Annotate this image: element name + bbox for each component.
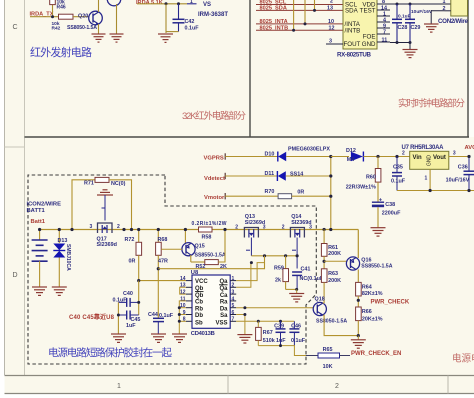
svg-text:8025_SDA: 8025_SDA xyxy=(260,6,287,12)
wire 8025_INTA xyxy=(256,23,343,25)
resistor R72 xyxy=(125,230,142,282)
svg-text:FOE: FOE xyxy=(363,33,376,40)
mosfet Q13 SI2369d xyxy=(244,214,265,238)
capacitor C39 xyxy=(274,321,286,345)
wire Q20 collector up xyxy=(98,0,100,12)
pin 12 INTB xyxy=(329,25,335,31)
svg-text:/INTB: /INTB xyxy=(345,28,361,35)
junction pin7/R67 xyxy=(257,320,260,323)
svg-text:SS8050-1.5A: SS8050-1.5A xyxy=(316,319,347,325)
pin 2 label Q13 xyxy=(235,225,238,231)
label PWR_CHECK xyxy=(371,299,410,305)
svg-text:8: 8 xyxy=(183,317,186,323)
diode D12 M4 xyxy=(346,148,363,163)
svg-text:C: C xyxy=(12,24,17,31)
svg-text:2: 2 xyxy=(335,383,339,390)
svg-text:Qa: Qa xyxy=(219,279,228,285)
inverted ground above Q17 gate xyxy=(97,190,113,195)
svg-text:R66: R66 xyxy=(362,309,372,315)
ground R66 xyxy=(351,336,366,349)
ground under battery xyxy=(32,287,47,295)
label IRDA_TX xyxy=(30,12,54,18)
svg-text:0.2R/±1%/2W: 0.2R/±1%/2W xyxy=(192,221,227,227)
svg-text:Cb: Cb xyxy=(195,300,203,306)
svg-text:C36: C36 xyxy=(458,164,468,170)
wire Q13 gate down xyxy=(250,238,252,256)
wire U7 ground rail xyxy=(397,190,474,192)
wire U8 pin1 to gate node xyxy=(236,256,264,281)
svg-text:CD4013B: CD4013B xyxy=(191,331,215,337)
svg-text:C44: C44 xyxy=(148,312,158,318)
wire Q19 emitter to ground xyxy=(116,4,118,34)
label Batt1 net xyxy=(31,219,46,225)
svg-text:电源电路短路保护胶封在一起: 电源电路短路保护胶封在一起 xyxy=(48,346,173,359)
diode D13 SMBJ10CA (TVS) xyxy=(53,230,71,288)
junction battery on bus xyxy=(38,228,41,231)
resistor R70 xyxy=(265,189,305,199)
label 8025_INTA xyxy=(260,19,288,25)
junction U7 pin1/rail xyxy=(429,189,432,192)
port VGPRS xyxy=(204,153,226,161)
svg-text:Db: Db xyxy=(195,313,203,319)
svg-text:BATT1: BATT1 xyxy=(27,208,46,214)
pin 3 label Q17 xyxy=(90,224,93,230)
wire bottoms rail to R65 xyxy=(258,346,306,356)
svg-text:R58: R58 xyxy=(202,235,212,241)
transistor Q15 SS8550 xyxy=(182,230,226,263)
resistor R42 xyxy=(52,14,74,31)
svg-text:U7 RH5RL30AA: U7 RH5RL30AA xyxy=(402,145,445,151)
svg-text:VCC: VCC xyxy=(195,279,208,285)
port Vmotor xyxy=(204,193,225,201)
transistor Q18 SS8050 xyxy=(313,297,347,325)
svg-text:Batt1: Batt1 xyxy=(31,219,46,225)
wire R68 node down to C44 xyxy=(157,269,159,318)
junction SDA xyxy=(313,9,316,12)
svg-text:C38: C38 xyxy=(385,202,395,208)
svg-text:GND: GND xyxy=(362,41,376,48)
ground under C29 xyxy=(403,43,418,58)
capacitor C28 xyxy=(392,4,411,43)
junction pin5 wire xyxy=(243,306,246,309)
svg-text:1uF: 1uF xyxy=(276,338,286,344)
junction C29 bottom xyxy=(409,41,412,44)
svg-text:IRM-3638T: IRM-3638T xyxy=(198,12,228,18)
svg-text:VSS: VSS xyxy=(215,320,227,326)
svg-text:R63: R63 xyxy=(328,271,338,277)
junction D13 on bus xyxy=(58,228,61,231)
svg-text:Rb: Rb xyxy=(195,306,203,312)
svg-text:C42: C42 xyxy=(185,19,195,25)
pin 7 FOE stub xyxy=(377,29,390,35)
resistor R61 xyxy=(321,230,341,269)
capacitor C41 xyxy=(292,266,325,289)
junction C28 bottom xyxy=(396,41,399,44)
svg-text:M4: M4 xyxy=(347,157,355,163)
wire 8025_INTB xyxy=(256,29,343,31)
svg-text:20K±1%: 20K±1% xyxy=(362,316,383,322)
svg-text:12: 12 xyxy=(329,25,335,31)
svg-text:Q18: Q18 xyxy=(315,297,325,303)
capacitor C44 xyxy=(148,312,174,334)
junction C29 top xyxy=(409,3,412,6)
junction Q15 emitter on bus xyxy=(184,228,187,231)
junction R68 on bus xyxy=(157,228,160,231)
wire Q18 emitter down xyxy=(323,315,358,335)
resistor R65 xyxy=(306,347,350,370)
junction rail/R70 xyxy=(329,195,332,198)
label BATT1 xyxy=(27,208,46,214)
capacitor C46 xyxy=(289,321,305,345)
stub pin8 xyxy=(179,320,186,322)
svg-text:Q20: Q20 xyxy=(78,14,88,20)
junction at x166 xyxy=(165,2,168,5)
capacitor C29 xyxy=(405,4,433,43)
pin 8 VDD stub xyxy=(377,0,390,5)
svg-text:2: 2 xyxy=(117,224,120,230)
ground CON2 xyxy=(424,24,439,32)
svg-text:SMBJ10CA: SMBJ10CA xyxy=(65,244,71,271)
svg-text:14: 14 xyxy=(180,276,186,282)
svg-text:Sa: Sa xyxy=(220,313,228,319)
pin 11 GND stub xyxy=(377,37,390,43)
label power-protection note (Chinese blue) xyxy=(48,346,173,359)
connector CON2/Wire body xyxy=(438,0,469,25)
svg-text:Qb: Qb xyxy=(195,293,204,299)
svg-text:实时时钟电路部分: 实时时钟电路部分 xyxy=(398,98,465,110)
label RTC circuit part (Chinese red) xyxy=(398,98,465,110)
wire U8 pin6 to ground xyxy=(236,315,245,335)
svg-text:0.1uF: 0.1uF xyxy=(291,338,306,344)
svg-text:2: 2 xyxy=(330,0,333,5)
junction rail/C39 xyxy=(279,344,282,347)
svg-text:RX-8025TUB: RX-8025TUB xyxy=(337,52,372,59)
CON2 pin 2 xyxy=(443,6,451,12)
svg-text:C41: C41 xyxy=(301,266,311,272)
junction C36 top xyxy=(467,155,470,158)
junction C40 right xyxy=(137,301,140,304)
junction R52 on bus xyxy=(223,228,226,231)
junction pin2/gate wire xyxy=(250,261,253,264)
wire 8025_SDA xyxy=(256,9,343,11)
IRM-3638T pin 1 xyxy=(187,0,197,5)
tick Q13 gate xyxy=(246,249,250,251)
wire U8 pin2 up xyxy=(236,263,251,288)
junction C36/rail xyxy=(467,189,470,192)
dashed protection box xyxy=(28,175,316,364)
svg-text:3: 3 xyxy=(90,224,93,230)
ground under Q19 xyxy=(110,34,124,42)
label AVCC xyxy=(465,145,474,151)
wire VGPRS rail xyxy=(225,156,278,158)
wire R68 node to gate node xyxy=(158,256,264,269)
resistor R52 xyxy=(191,230,227,271)
svg-text:8025_INTB: 8025_INTB xyxy=(260,25,289,31)
junction R61/R63 base node xyxy=(323,260,326,263)
svg-text:3: 3 xyxy=(453,151,456,157)
junction INTA xyxy=(304,22,307,25)
junction pin6 wire xyxy=(243,313,246,316)
junction gate/C41 xyxy=(296,254,299,257)
svg-text:SS14: SS14 xyxy=(290,172,303,178)
svg-text:1: 1 xyxy=(232,276,235,282)
svg-text:32K红外电路部分: 32K红外电路部分 xyxy=(182,110,246,122)
wire IRDA_TX net xyxy=(30,16,59,18)
pin 1 stub xyxy=(377,11,390,17)
ground under U8 left pins xyxy=(172,334,187,342)
pin 13 SDA xyxy=(327,6,333,12)
wire R42 to Q20 base xyxy=(73,16,89,18)
junction pin7/C39 xyxy=(279,320,282,323)
svg-text:D10: D10 xyxy=(265,152,275,158)
junction PWR_CHECK xyxy=(357,299,360,302)
svg-text:0.1uF: 0.1uF xyxy=(159,313,174,319)
junction rail/D11 xyxy=(329,174,332,177)
svg-text:+: + xyxy=(379,197,383,203)
junction R72 on bus xyxy=(137,228,140,231)
pin 14 TEST stub xyxy=(377,5,390,11)
label IRDA 5.1K (cut at top) xyxy=(136,0,163,6)
diode D10 PMEG6030ELPX xyxy=(265,147,331,162)
junction R71 left on bus xyxy=(70,228,73,231)
svg-text:1: 1 xyxy=(190,0,193,5)
svg-text:1: 1 xyxy=(117,383,121,390)
svg-text:Sb: Sb xyxy=(195,320,203,326)
svg-text:10K: 10K xyxy=(323,364,333,370)
wire U8 pin5 to Q18 base xyxy=(236,307,313,309)
svg-text:PWR_CHECK: PWR_CHECK xyxy=(371,299,410,305)
wire vertical to SDA xyxy=(314,0,316,10)
U7 pin 2 xyxy=(402,151,405,157)
svg-text:5: 5 xyxy=(232,303,235,309)
svg-text:C35: C35 xyxy=(393,164,403,170)
main power bus xyxy=(40,229,359,231)
diode D11 SS14 xyxy=(265,171,304,181)
capacitor C38 electrolytic xyxy=(372,197,401,227)
junction R68 bottom node xyxy=(157,267,160,270)
wire bus to Q16 emitter xyxy=(357,230,359,259)
svg-text:7: 7 xyxy=(383,29,386,35)
U8 pin names xyxy=(195,279,228,326)
resistor R64 xyxy=(356,282,383,307)
ground under C44 xyxy=(151,334,166,342)
stub pin9 xyxy=(179,314,186,316)
svg-text:R70: R70 xyxy=(265,189,275,195)
pin 9 stub xyxy=(377,23,390,29)
resistor R59 xyxy=(274,256,289,290)
transistor Q19 (cut at top edge) xyxy=(107,0,121,6)
svg-text:0.1uF: 0.1uF xyxy=(391,178,406,184)
svg-text:10uF/16V: 10uF/16V xyxy=(446,178,470,184)
capacitor C40 xyxy=(113,291,139,307)
svg-text:2: 2 xyxy=(282,225,285,231)
wire down to C40/C45 right xyxy=(138,281,140,315)
wire D12 to U7 pin2 xyxy=(363,156,409,158)
vertical rail tie xyxy=(330,157,332,230)
ground under Q20 xyxy=(92,34,106,42)
bottom zone tick 1-2 xyxy=(227,376,229,394)
svg-text:2: 2 xyxy=(402,151,405,157)
pin 3 label Q14 xyxy=(309,225,312,231)
capacitor C42 xyxy=(166,4,199,32)
capacitor C45 xyxy=(118,311,140,329)
IC U8 CD4013B body xyxy=(191,270,230,337)
svg-text:8025_INTA: 8025_INTA xyxy=(260,19,288,25)
pin 4 stub xyxy=(377,17,390,23)
frame left inner line xyxy=(24,0,26,375)
bottom frame line xyxy=(5,375,474,377)
svg-text:IRDA 5.1K: IRDA 5.1K xyxy=(136,0,163,6)
IC U9 RX-8025TUB body xyxy=(343,0,377,49)
junction VCC corner xyxy=(137,279,140,282)
ground under C40/C45 xyxy=(111,334,126,342)
junction gate/R59 xyxy=(284,254,287,257)
svg-text:CON2/Wire: CON2/Wire xyxy=(438,18,469,25)
svg-text:Vin: Vin xyxy=(413,155,423,161)
svg-text:2k: 2k xyxy=(275,278,281,284)
junctions on U8 gnd column xyxy=(178,306,181,323)
svg-text:47R: 47R xyxy=(158,259,168,265)
svg-text:2: 2 xyxy=(235,225,238,231)
label 8025_INTB xyxy=(260,25,289,31)
svg-text:Ca: Ca xyxy=(220,293,228,299)
svg-text:SDA: SDA xyxy=(345,8,359,15)
svg-text:Vdetect: Vdetect xyxy=(204,176,225,182)
junction R46/IRDA_TX xyxy=(51,15,54,18)
port Vdetect xyxy=(204,173,225,182)
U8 left pin numbers xyxy=(180,276,186,323)
svg-text:0.1uF: 0.1uF xyxy=(185,26,200,32)
junction R60 top xyxy=(376,155,379,158)
svg-text:AVCC: AVCC xyxy=(465,145,474,151)
svg-text:TEST: TEST xyxy=(360,8,376,15)
svg-text:R68: R68 xyxy=(158,237,168,243)
tick Q14 gate xyxy=(292,249,296,251)
label C40 C45 near U8 (Chinese red) xyxy=(69,313,115,321)
U8 left pin stubs xyxy=(186,281,192,322)
ground C38 xyxy=(371,228,386,236)
U7 pin 3 xyxy=(449,151,469,157)
svg-text:11: 11 xyxy=(382,37,388,43)
svg-text:R71: R71 xyxy=(84,181,94,187)
CON2 pin 1 xyxy=(443,0,446,5)
wire base node to Q16 xyxy=(324,260,346,262)
junction INTB xyxy=(292,29,295,32)
bottom frame inner line xyxy=(5,393,474,395)
pin 3 FOUT stub xyxy=(326,39,343,45)
wire VDD rail to CON2 pin1 xyxy=(390,3,451,5)
wire 8025_SCL xyxy=(256,4,343,6)
svg-text:2: 2 xyxy=(232,283,235,289)
svg-text:R60: R60 xyxy=(366,174,376,180)
svg-text:D: D xyxy=(12,272,17,279)
zone row divider xyxy=(5,146,25,148)
ground U8 pin6 xyxy=(237,335,252,343)
wire Q14 gate down xyxy=(296,238,298,269)
section divider horizontal xyxy=(25,136,470,138)
wire Q20 emitter to ground xyxy=(98,24,100,34)
svg-text:2200uF: 2200uF xyxy=(382,211,401,217)
section divider vertical left xyxy=(249,0,251,137)
junction bus/R61 xyxy=(323,228,326,231)
junction R59/C41 gnd xyxy=(295,288,298,291)
wire Q18 collector up to R63 xyxy=(323,302,324,304)
svg-text:Q16: Q16 xyxy=(361,257,371,263)
ground under D13 xyxy=(52,287,67,295)
resistor R66 xyxy=(356,307,383,336)
mosfet Q14 SI2369d xyxy=(290,214,311,238)
svg-text:D12: D12 xyxy=(346,148,356,154)
wire R70 to vertical xyxy=(292,195,331,197)
junction Q17 drain xyxy=(122,228,125,231)
ground R59/C41 xyxy=(289,289,304,302)
label IRM-3638T xyxy=(198,12,228,18)
junction rail/bus xyxy=(329,228,332,231)
pin 2 SCL (cut) xyxy=(330,0,333,5)
wire vertical to INTB xyxy=(293,0,295,30)
label VS xyxy=(203,2,211,8)
bottom zone label 2 xyxy=(335,383,339,390)
svg-text:R46: R46 xyxy=(57,5,66,11)
svg-text:10uF/16V: 10uF/16V xyxy=(411,9,433,15)
wire gate tie xyxy=(251,255,297,257)
pin 2 label Q17 xyxy=(117,224,120,230)
junction R71 right on bus xyxy=(130,228,133,231)
svg-text:Q15: Q15 xyxy=(195,244,205,250)
svg-text:3: 3 xyxy=(329,39,332,45)
svg-text:C29: C29 xyxy=(411,25,421,31)
svg-text:Qb: Qb xyxy=(195,286,204,292)
battery BATT1 xyxy=(32,230,48,288)
frame left outer line xyxy=(4,0,6,375)
svg-text:0R: 0R xyxy=(129,259,136,265)
svg-text:FOUT: FOUT xyxy=(344,41,361,48)
resistor R46 (vertical, cut at top) xyxy=(50,0,66,17)
wire Q16 collector to R64 xyxy=(357,270,359,283)
svg-text:13: 13 xyxy=(327,6,333,12)
svg-text:10: 10 xyxy=(328,19,334,25)
mosfet Q17 SI2369d xyxy=(97,223,117,248)
wire Vdetect rail xyxy=(225,175,277,177)
wire U8 pins 13-12 jumper xyxy=(180,287,186,294)
wire D11 to vertical xyxy=(286,175,331,177)
svg-text:VS: VS xyxy=(203,2,211,8)
svg-text:IRDA_TX: IRDA_TX xyxy=(30,12,54,18)
svg-text:C28: C28 xyxy=(398,25,408,31)
junction C28 top xyxy=(396,3,399,6)
svg-text:200K: 200K xyxy=(328,251,341,257)
resistor R63 xyxy=(321,269,341,303)
svg-text:C40 C45靠近U8: C40 C45靠近U8 xyxy=(69,313,115,321)
zone label C xyxy=(12,24,17,31)
label 32K IR circuit part (Chinese red) xyxy=(182,110,246,122)
wire vertical to INTA xyxy=(304,0,306,24)
junction at C42 top xyxy=(177,2,180,5)
junction C45 left xyxy=(117,314,120,317)
transistor Q16 SS8550 xyxy=(346,257,392,270)
wire U8 pins 11-10-9-8 to ground xyxy=(179,301,186,334)
stub pin10 xyxy=(179,307,186,309)
pin 10 INTA xyxy=(328,19,334,25)
svg-text:PMEG6030ELPX: PMEG6030ELPX xyxy=(288,147,330,153)
wire VCC feed to U8 pin14 xyxy=(139,280,186,282)
resistor R58 shunt xyxy=(192,221,227,241)
svg-text:8: 8 xyxy=(382,0,385,5)
svg-text:0.1uF: 0.1uF xyxy=(113,297,128,303)
label 8025_SCL (cut) xyxy=(260,0,287,6)
svg-text:1uF: 1uF xyxy=(126,323,136,329)
svg-text:0R: 0R xyxy=(297,190,304,196)
